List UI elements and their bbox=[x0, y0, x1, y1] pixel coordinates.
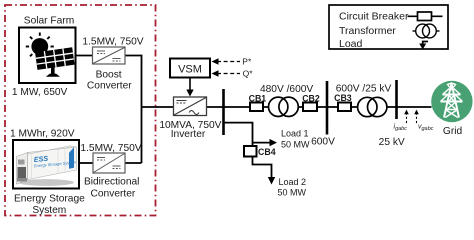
svg-text:Energy Storage: Energy Storage bbox=[14, 194, 85, 205]
svg-text:Load 2: Load 2 bbox=[279, 177, 307, 187]
svg-text:1.5MW, 750V: 1.5MW, 750V bbox=[82, 37, 143, 48]
svg-text:Q*: Q* bbox=[243, 69, 254, 79]
svg-text:System: System bbox=[32, 205, 66, 216]
svg-text:Bidirectional: Bidirectional bbox=[84, 177, 140, 188]
svg-text:CB4: CB4 bbox=[258, 147, 276, 157]
svg-text:Circuit Breaker: Circuit Breaker bbox=[339, 11, 409, 23]
svg-text:Load 1: Load 1 bbox=[281, 129, 309, 139]
svg-text:Transformer: Transformer bbox=[339, 25, 396, 37]
svg-text:1.5MW, 750V: 1.5MW, 750V bbox=[80, 143, 141, 154]
svg-text:Inverter: Inverter bbox=[171, 129, 206, 140]
svg-text:CB2: CB2 bbox=[302, 94, 320, 104]
svg-text:Load: Load bbox=[339, 38, 363, 50]
svg-text:CB1: CB1 bbox=[249, 94, 267, 104]
svg-text:Boost: Boost bbox=[96, 70, 122, 81]
svg-text:VSM: VSM bbox=[178, 64, 202, 76]
svg-text:25 kV: 25 kV bbox=[379, 137, 405, 148]
svg-text:Solar Farm: Solar Farm bbox=[24, 16, 74, 27]
svg-text:CB3: CB3 bbox=[334, 93, 352, 103]
svg-text:Converter: Converter bbox=[91, 189, 136, 200]
svg-text:Converter: Converter bbox=[87, 81, 132, 92]
svg-text:1 MW, 650V: 1 MW, 650V bbox=[12, 87, 68, 98]
svg-text:50 MW: 50 MW bbox=[278, 187, 307, 197]
svg-text:50 MW: 50 MW bbox=[281, 139, 310, 149]
svg-text:600V: 600V bbox=[311, 137, 335, 148]
svg-text:1 MWhr, 920V: 1 MWhr, 920V bbox=[10, 129, 75, 140]
svg-text:P*: P* bbox=[242, 57, 252, 67]
svg-text:Grid: Grid bbox=[443, 126, 463, 137]
